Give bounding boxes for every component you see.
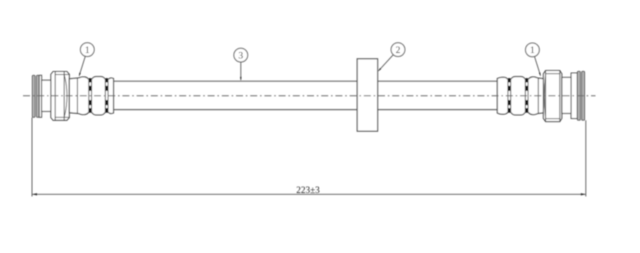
crimp sleeve (right fitting) [497,77,544,115]
hex nut (left fitting) [51,72,69,121]
svg-text:1: 1 [530,46,535,56]
left neck cylinder [42,80,52,111]
dimension extension line (left) [31,118,33,197]
hex nut (right fitting) [543,71,561,122]
crimp sleeve (left fitting) [69,77,113,115]
svg-text:1: 1 [85,46,90,56]
balloon 1 (right fitting callout) [526,43,541,77]
crimp groove channel 2 (right) with black crimp marks [525,78,528,112]
left end flange rings (gray washers) [32,75,39,117]
balloon 1 (left fitting callout) [79,43,94,77]
hose 3 (right segment of flexible hose outline) [378,81,498,109]
right neck cylinder [562,77,571,113]
right end flange rings (gray washers) [577,71,584,120]
crimp groove channel 1 (left) with black crimp marks [89,78,92,112]
svg-text:223±3: 223±3 [296,185,320,195]
dimension line 223±3 [32,193,586,195]
balloon 3 (hose callout) [234,48,248,81]
hose clamp 2 (middle bracket) [357,59,377,131]
crimp groove channel 2 (left) with black crimp marks [105,78,108,112]
centerline (dash-dot axis) [23,95,596,97]
balloon 2 (clamp callout) [378,43,405,72]
right end flange plate [571,73,577,119]
hose 3 (left segment of flexible hose outline) [114,81,358,109]
dimension extension line (right) [585,120,587,196]
svg-text:2: 2 [396,46,401,56]
left end flange plate [39,75,41,117]
crimp groove channel 1 (right) with black crimp marks [508,78,511,112]
svg-text:3: 3 [238,51,243,61]
